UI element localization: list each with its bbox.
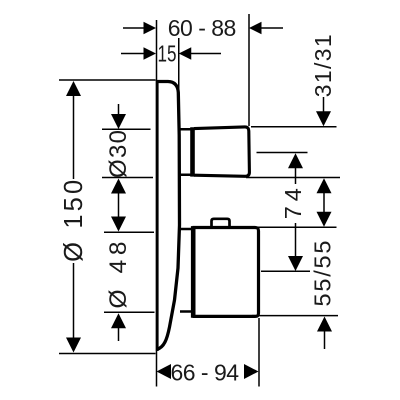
svg-text:Ø 48: Ø 48 — [105, 242, 132, 309]
svg-text:Ø30: Ø30 — [105, 130, 132, 178]
svg-text:55/55: 55/55 — [310, 241, 336, 307]
svg-text:66 - 94: 66 - 94 — [170, 360, 239, 386]
svg-text:Ø 150: Ø 150 — [60, 180, 88, 262]
svg-text:31/31: 31/31 — [310, 34, 336, 97]
svg-text:15: 15 — [158, 41, 177, 67]
svg-text:60 - 88: 60 - 88 — [168, 15, 236, 41]
svg-text:74: 74 — [280, 188, 306, 219]
